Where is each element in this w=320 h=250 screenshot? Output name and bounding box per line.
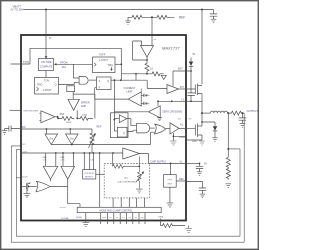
svg-text:1-SHOT: 1-SHOT <box>99 59 109 62</box>
svg-text:OUTPUT: OUTPUT <box>247 109 259 113</box>
svg-text:SWITCHOVER: SWITCHOVER <box>23 110 38 112</box>
svg-text:D2: D2 <box>122 217 124 219</box>
svg-text:5V: 5V <box>192 53 195 56</box>
svg-text:BST: BST <box>178 68 183 71</box>
svg-text:D3: D3 <box>128 217 130 219</box>
svg-text:REF: REF <box>60 113 65 116</box>
svg-text:REF: REF <box>168 184 173 186</box>
svg-text:D4: D4 <box>135 217 137 219</box>
svg-text:Q: Q <box>55 84 57 87</box>
svg-text:R: R <box>99 86 101 89</box>
svg-text:MODE AND CLAMP CONTROL: MODE AND CLAMP CONTROL <box>100 210 133 213</box>
svg-text:ZERO CROSSING: ZERO CROSSING <box>162 111 182 114</box>
svg-text:ERROR: ERROR <box>81 101 90 104</box>
svg-text:LIMIT: LIMIT <box>126 90 133 93</box>
svg-text:DCUV: DCUV <box>22 176 29 178</box>
svg-text:Gm: Gm <box>49 138 53 141</box>
svg-text:1-SHOT: 1-SHOT <box>42 89 52 92</box>
svg-text:TON: TON <box>23 60 29 64</box>
svg-text:REF: REF <box>97 126 102 129</box>
svg-text:5V: 5V <box>154 39 157 41</box>
svg-text:D/A: D/A <box>62 66 67 69</box>
svg-text:DC/USB: DC/USB <box>61 218 69 220</box>
svg-text:DC: DC <box>22 125 26 129</box>
svg-text:GND: GND <box>192 141 197 143</box>
svg-text:5V: 5V <box>204 162 207 165</box>
svg-text:10kΩ: 10kΩ <box>82 114 88 116</box>
svg-text:1Ω: 1Ω <box>150 68 153 71</box>
svg-text:TOFF: TOFF <box>99 53 106 56</box>
svg-text:D1: D1 <box>116 217 118 219</box>
svg-text:LDO: LDO <box>168 179 173 181</box>
svg-text:COMPUTE: COMPUTE <box>40 66 53 69</box>
svg-text:REF: REF <box>179 178 184 181</box>
svg-text:TON: TON <box>44 79 49 82</box>
svg-text:D/A CONVERTER: D/A CONVERTER <box>117 180 135 183</box>
svg-text:10kΩ: 10kΩ <box>66 122 72 124</box>
svg-text:CCI: CCI <box>22 144 26 146</box>
svg-text:SHDN: SHDN <box>76 217 82 219</box>
svg-text:DH: DH <box>180 86 184 89</box>
svg-text:OVP/UVP: OVP/UVP <box>84 173 94 175</box>
svg-text:Q: Q <box>107 80 109 83</box>
svg-text:DETECT: DETECT <box>85 177 94 179</box>
svg-text:TRIG: TRIG <box>37 83 43 86</box>
svg-text:Q: Q <box>123 133 125 135</box>
svg-text:LX: LX <box>182 98 185 101</box>
svg-text:D0: D0 <box>109 217 111 219</box>
svg-text:PGND: PGND <box>179 137 186 139</box>
svg-text:2V TO 28V: 2V TO 28V <box>10 8 23 12</box>
svg-text:MAX1737: MAX1737 <box>162 46 180 51</box>
svg-text:TIME: TIME <box>158 217 164 219</box>
svg-text:Gm: Gm <box>70 138 74 141</box>
svg-text:TRIG: TRIG <box>107 64 113 67</box>
svg-text:-5%: -5% <box>43 160 47 162</box>
svg-text:DCUV: DCUV <box>60 207 67 209</box>
svg-text:+5%: +5% <box>60 160 64 162</box>
svg-text:CCV: CCV <box>23 151 28 153</box>
svg-text:AMP: AMP <box>81 105 87 108</box>
svg-text:A-D: A-D <box>124 177 128 180</box>
svg-text:REF: REF <box>179 16 185 20</box>
svg-text:IN: IN <box>49 38 52 40</box>
svg-text:ON-TIME: ON-TIME <box>41 61 52 64</box>
